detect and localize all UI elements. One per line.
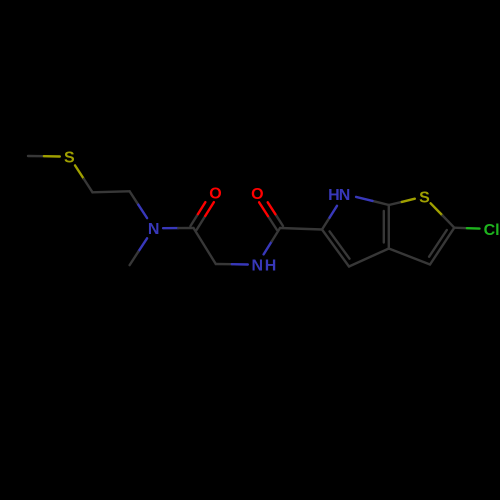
svg-text:H: H [265, 257, 277, 274]
wire bond CH2-N1 [130, 191, 148, 218]
svg-text:N: N [252, 257, 264, 274]
wire bond N1-CH3 (N-methyl) [130, 238, 148, 265]
wire bond C3-C3A ring [389, 249, 430, 265]
svg-text:O: O [251, 186, 263, 203]
svg-text:O: O [209, 186, 221, 203]
wire bond CCL=C3 ring double [429, 228, 454, 265]
wire bond C1-CH2(alpha) [194, 228, 216, 264]
wire bond CCL-Cl [454, 226, 479, 229]
svg-text:S: S [419, 189, 430, 206]
svg-text:N: N [339, 187, 351, 204]
wire bond C7A-N4 ring [356, 197, 389, 205]
wire bond C6-C3A ring [349, 249, 389, 267]
wire bond N1-C1 (amide N-C) [163, 227, 193, 230]
wire bond S2-CCL ring [431, 203, 455, 227]
wire bond C5=C6 ring double [322, 230, 350, 267]
svg-text:N: N [148, 221, 160, 238]
wire bond alphaC-N3 (NH) [216, 263, 248, 266]
svg-text:Cl: Cl [484, 222, 500, 239]
double bond C1=O1 (amide carbonyl) [190, 202, 214, 230]
wire bond CH3-S1 (methyl to sulfur) [28, 155, 60, 158]
wire bond C5-N4 ring [322, 206, 337, 230]
double bond C2=O2 [259, 202, 283, 230]
wire bond C2-C5 (to ring) [280, 228, 322, 230]
svg-text:S: S [64, 149, 75, 166]
wire bond S1-CH2 [75, 165, 93, 192]
wire bond C7A-S2 ring [389, 199, 415, 205]
wire bond CH2-CH2 [93, 191, 130, 192]
wire bond N3-C2 [264, 228, 280, 254]
wire bond C3A=C7A fused ring double [384, 205, 389, 249]
